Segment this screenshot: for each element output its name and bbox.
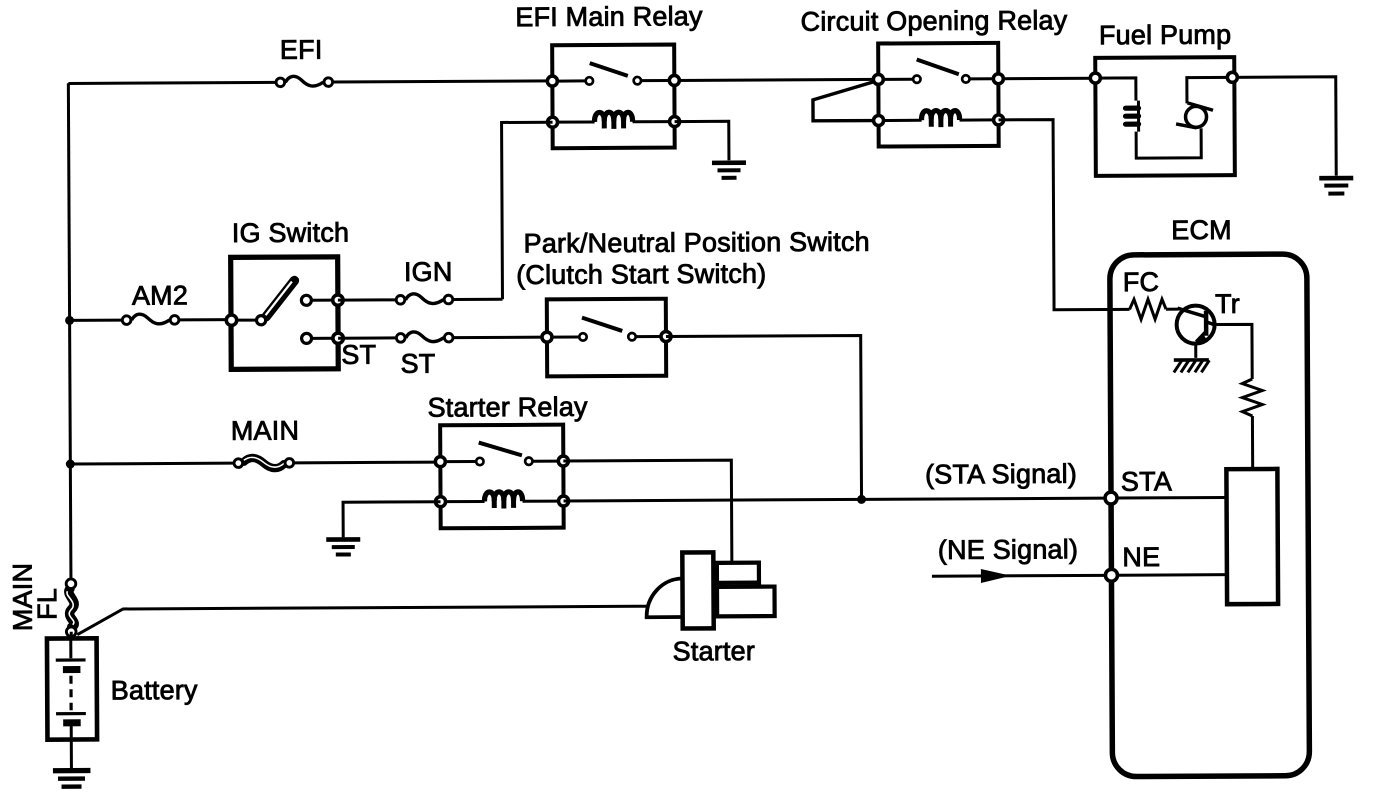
- starter motor body: [682, 552, 713, 628]
- battery plate negative short: [63, 666, 80, 673]
- svg-text:IGN: IGN: [404, 257, 453, 287]
- ECM box: [1110, 254, 1310, 777]
- relay EFI Main Relay: [547, 45, 680, 149]
- wire battery to ground: [70, 740, 73, 769]
- wire EFI Main Relay to Circuit Opening Relay: [674, 79, 878, 80]
- wire transistor collector to resistor: [1215, 324, 1253, 379]
- terminal STA: [1105, 492, 1117, 504]
- wire FL to battery and long wire to Starter: [70, 632, 73, 638]
- wire ST row: [338, 336, 396, 339]
- relay Starter Relay: [435, 425, 569, 529]
- svg-text:Battery: Battery: [111, 675, 198, 705]
- svg-text:(STA Signal): (STA Signal): [925, 459, 1077, 490]
- hook wire switch to coil: [813, 81, 877, 121]
- svg-text:ST: ST: [400, 349, 435, 379]
- wire EFI Main Relay coil left to IGN line: [502, 122, 554, 299]
- svg-text:Tr: Tr: [1215, 289, 1240, 319]
- coil of Starter Relay: [484, 492, 522, 502]
- coil of Circuit Opening Relay: [921, 110, 959, 120]
- component Fuel Pump: [1090, 57, 1238, 176]
- pump motor: [1185, 106, 1206, 127]
- wire STA inside ECM: [1117, 496, 1226, 500]
- pump choke coil branch: [1095, 78, 1136, 101]
- svg-text:NE: NE: [1122, 542, 1160, 572]
- wire Starter Relay switch to Starter: [563, 460, 732, 563]
- battery plate positive long: [56, 658, 86, 661]
- starter bell housing: [646, 579, 684, 618]
- battery plate positive long 2: [56, 712, 86, 715]
- svg-text:FL: FL: [32, 588, 62, 620]
- ground Starter Relay: [326, 539, 360, 554]
- fuse ST: [396, 332, 453, 343]
- switch IG Switch: [226, 257, 343, 370]
- wire Fuel Pump to right ground: [1232, 77, 1336, 176]
- wire STA signal line: [564, 498, 1105, 501]
- wire NE signal with arrow: [932, 574, 1105, 578]
- coil stubs: [558, 120, 594, 123]
- svg-text:Starter Relay: Starter Relay: [427, 392, 588, 423]
- svg-text:IG Switch: IG Switch: [232, 218, 349, 249]
- wire Circuit Opening Relay to Fuel Pump: [998, 77, 1095, 81]
- switch blade: [590, 63, 628, 76]
- ground battery: [53, 771, 91, 787]
- wire Starter Relay coil left to ground: [343, 502, 441, 538]
- node junction AM2 row on battery bus: [65, 316, 74, 325]
- svg-text:STA: STA: [1121, 466, 1172, 496]
- svg-text:Fuel Pump: Fuel Pump: [1099, 20, 1232, 51]
- resistor (vertical, in ECM): [1242, 379, 1262, 416]
- wire resistor to driver block: [1251, 416, 1254, 469]
- relay Circuit Opening Relay: [813, 43, 1004, 147]
- wire top feed battery to EFI fuse: [68, 82, 275, 83]
- fuse AM2: [122, 314, 179, 325]
- starter solenoid lower: [717, 587, 775, 617]
- wire EFI Main Relay coil right to ground: [675, 121, 729, 160]
- battery dashed cell link: [69, 676, 72, 710]
- svg-text:FC: FC: [1123, 267, 1160, 297]
- node junction MAIN row on battery bus: [66, 460, 75, 469]
- fusible link FL (vertical): [66, 579, 76, 637]
- svg-text:(Clutch Start Switch): (Clutch Start Switch): [516, 259, 766, 290]
- svg-text:AM2: AM2: [132, 280, 188, 310]
- fuse IGN: [396, 294, 453, 305]
- switch blade: [479, 442, 522, 455]
- svg-text:Starter: Starter: [673, 636, 756, 666]
- svg-text:ST: ST: [341, 340, 376, 370]
- wire NE inside ECM: [1117, 573, 1226, 577]
- svg-text:ECM: ECM: [1171, 215, 1232, 245]
- svg-text:EFI Main Relay: EFI Main Relay: [515, 1, 703, 32]
- wire transistor emitter to ground: [1194, 342, 1197, 357]
- coil of EFI Main Relay: [594, 112, 632, 122]
- arrowhead NE signal: [981, 569, 1011, 583]
- transistor Tr: [1177, 306, 1215, 344]
- svg-text:MAIN: MAIN: [231, 416, 299, 446]
- wire Circuit Opening Relay coil to ECM FC: [999, 119, 1130, 310]
- component Starter: [646, 552, 774, 629]
- battery Battery: [47, 638, 97, 739]
- wire FC resistor to transistor: [1166, 308, 1178, 311]
- blade: [582, 317, 622, 331]
- block ECM driver: [1226, 469, 1278, 604]
- switch blade: [917, 59, 959, 74]
- contact stubs: [558, 79, 585, 82]
- wire EFI fuse to EFI Main Relay: [333, 81, 552, 82]
- starter solenoid upper: [717, 563, 759, 583]
- wire battery bus (left vertical): [68, 83, 71, 578]
- ground EFI Main Relay: [712, 163, 746, 178]
- svg-text:(NE Signal): (NE Signal): [938, 534, 1078, 565]
- wire Park/Neutral output to STA line: [666, 335, 862, 500]
- fuse EFI: [276, 76, 333, 87]
- wire MAIN row: [70, 462, 233, 466]
- lever: [266, 281, 295, 317]
- fusible link MAIN: [234, 457, 294, 468]
- svg-text:Park/Neutral Position Switch: Park/Neutral Position Switch: [524, 227, 870, 259]
- node junction STA line: [857, 495, 866, 504]
- resistor FC (horizontal): [1129, 299, 1166, 319]
- wire AM2 row: [70, 319, 122, 322]
- wire IGN row: [338, 298, 396, 301]
- ground transistor (hatched): [1174, 360, 1210, 373]
- terminals: [547, 76, 557, 86]
- terminal NE: [1105, 569, 1117, 581]
- svg-text:EFI: EFI: [280, 35, 323, 65]
- battery plate negative short 2: [63, 719, 80, 726]
- switch Park/Neutral Position Switch: [542, 299, 671, 377]
- ground right of fuel pump: [1319, 178, 1353, 194]
- svg-text:Circuit Opening Relay: Circuit Opening Relay: [801, 5, 1068, 36]
